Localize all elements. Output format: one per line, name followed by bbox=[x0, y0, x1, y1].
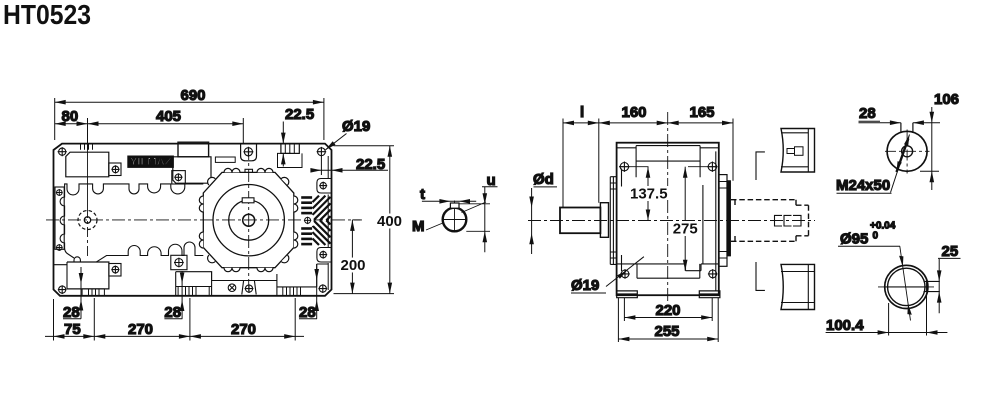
u extension lines bbox=[459, 202, 490, 231]
arrows l bbox=[563, 121, 574, 126]
leader M bbox=[426, 223, 444, 231]
arrows 690 bbox=[55, 100, 66, 105]
svg-text:160: 160 bbox=[622, 104, 647, 121]
arrows 22.5 right bbox=[310, 168, 321, 173]
svg-text:0: 0 bbox=[873, 231, 879, 242]
arrows 75/270/270 bbox=[54, 334, 65, 339]
inner cavity bottom scalloped line bbox=[96, 242, 203, 262]
arrows 200 bbox=[350, 220, 355, 231]
dimension 28 (slot) bbox=[859, 121, 941, 123]
top-left corner bolt bbox=[58, 147, 67, 156]
output hub octagon boss bbox=[203, 172, 293, 267]
svg-text:137.5: 137.5 bbox=[630, 186, 668, 203]
hub vertical centerline bbox=[248, 147, 250, 291]
svg-text:270: 270 bbox=[128, 321, 153, 338]
Ø95 circle inner bbox=[888, 268, 925, 305]
top-right recess box bbox=[278, 153, 303, 167]
fins center bolt bbox=[303, 215, 314, 225]
svg-text:100.4: 100.4 bbox=[826, 317, 864, 334]
front left flange bbox=[610, 177, 616, 265]
inner cavity left scallops bbox=[60, 186, 74, 258]
dimension 25 bbox=[938, 258, 961, 313]
dimension 22.5 top vertical bbox=[277, 122, 291, 167]
extension lines right bbox=[334, 146, 395, 294]
input shaft vertical centerline bbox=[87, 144, 89, 208]
svg-text:u: u bbox=[487, 172, 496, 189]
arrows Ø95 tilted bbox=[899, 256, 903, 267]
svg-text:80: 80 bbox=[62, 108, 79, 125]
svg-text:M24x50: M24x50 bbox=[836, 177, 890, 194]
hub circles bbox=[213, 185, 284, 256]
svg-text:22.5: 22.5 bbox=[356, 156, 385, 173]
arrows 160 bbox=[599, 121, 610, 126]
svg-text:HT0523: HT0523 bbox=[3, 0, 91, 30]
bottom middle recess bbox=[212, 280, 277, 282]
right edge inner wall lines bbox=[327, 156, 329, 290]
dimension 75 270 270 bbox=[45, 298, 304, 341]
dimension l 160 165 line bbox=[563, 119, 733, 208]
svg-text:28: 28 bbox=[164, 304, 181, 321]
bottom middle lug bbox=[242, 281, 256, 295]
dimension u line bbox=[482, 187, 498, 252]
right lug B bbox=[317, 248, 332, 263]
leader Ø19 top bbox=[326, 134, 347, 150]
arrows 255 bbox=[618, 337, 629, 342]
hub keyway bbox=[242, 198, 254, 203]
svg-text:l: l bbox=[580, 104, 584, 121]
Ø95 horizontal chord bbox=[885, 286, 928, 288]
key detail key slot bbox=[450, 203, 459, 208]
corner bolt (Ø19) bbox=[317, 147, 327, 157]
Ø95 label underline bbox=[838, 245, 900, 247]
Ø95 keyway slot bbox=[924, 281, 940, 291]
top-center block lower bbox=[173, 157, 211, 183]
detail block bottom bbox=[781, 264, 815, 309]
input shaft collar bbox=[600, 203, 608, 238]
front top bolts bbox=[619, 162, 717, 172]
small plate bbox=[215, 157, 235, 162]
arrows 220 bbox=[624, 315, 635, 320]
input shaft circle bbox=[78, 211, 97, 230]
leader Ø19 front bbox=[571, 257, 644, 293]
svg-text:25: 25 bbox=[942, 243, 959, 260]
svg-text:405: 405 bbox=[156, 108, 181, 125]
dimension 106 bbox=[920, 107, 939, 190]
YILMAZ logo plate bbox=[128, 156, 174, 167]
top-right bolt lug bbox=[241, 144, 257, 161]
arrows 100.4 bbox=[878, 330, 889, 335]
dimension 100.4 bbox=[826, 295, 948, 336]
dimension 220 bbox=[624, 298, 712, 321]
dimension 200 bbox=[351, 220, 353, 294]
boss top tab bbox=[245, 169, 253, 172]
front body outline bbox=[617, 143, 719, 296]
front foot pads bbox=[617, 291, 638, 298]
foot 2 bolt square bbox=[171, 255, 187, 269]
arrows 25 bbox=[937, 270, 942, 281]
leader M24x50 bbox=[837, 135, 910, 194]
svg-text:220: 220 bbox=[656, 302, 681, 319]
svg-text:75: 75 bbox=[64, 321, 81, 338]
right lug A bbox=[317, 179, 332, 194]
top edge ticks bbox=[81, 144, 93, 150]
bracket bottom bbox=[756, 262, 765, 290]
main horizontal centerline bbox=[46, 219, 362, 221]
arrows 80/405 bbox=[55, 121, 66, 126]
front vertical centerline bbox=[667, 112, 669, 302]
svg-text:275: 275 bbox=[673, 221, 698, 238]
foot 1 block bbox=[67, 262, 109, 289]
arrows 400 bbox=[388, 146, 393, 157]
svg-text:t: t bbox=[420, 186, 425, 203]
detail block top bbox=[781, 129, 815, 173]
right hub ring bbox=[727, 181, 730, 256]
bore center detail bbox=[775, 215, 802, 226]
arrows 165 bbox=[668, 121, 679, 126]
dimension 275 bbox=[684, 167, 686, 271]
arrows 275 bbox=[683, 167, 688, 178]
arrows t bbox=[439, 199, 450, 204]
key detail shaft circle bbox=[443, 208, 467, 232]
dimension 22.5 right bbox=[311, 155, 388, 175]
bracket top bbox=[756, 152, 765, 180]
detail block top screw bbox=[787, 149, 795, 154]
input shaft bbox=[560, 208, 600, 234]
bolt square 1 bbox=[109, 163, 121, 176]
svg-text:28: 28 bbox=[859, 105, 876, 122]
svg-text:28: 28 bbox=[63, 304, 80, 321]
foot 2 block bbox=[176, 272, 212, 281]
dimension 80 and 405 bbox=[55, 118, 244, 150]
front inner panel lines bbox=[622, 169, 703, 272]
input block top-left bbox=[66, 152, 109, 177]
dimension 690 bbox=[55, 98, 324, 140]
arrow Ø19 leader bbox=[326, 141, 336, 150]
svg-text:M: M bbox=[412, 218, 425, 235]
svg-text:Ø19: Ø19 bbox=[571, 277, 599, 294]
fins bars bbox=[301, 196, 312, 245]
dimension 255 bbox=[618, 298, 718, 342]
arrows Ød bbox=[529, 197, 534, 208]
svg-text:YILMAZ: YILMAZ bbox=[130, 156, 172, 168]
right body inner wall bbox=[715, 151, 717, 290]
M24 circle centerlines bbox=[885, 130, 930, 174]
dimension 28 verticals bbox=[63, 264, 317, 319]
svg-text:270: 270 bbox=[231, 321, 256, 338]
fins chevron stripes bbox=[313, 196, 331, 245]
dimension t bbox=[422, 200, 476, 202]
top-right hub stripe box bbox=[281, 144, 299, 154]
inner cavity top scalloped line bbox=[65, 184, 204, 195]
housing outline bbox=[54, 144, 332, 296]
Ø95 circle outer bbox=[885, 265, 928, 308]
top-center block upper bbox=[178, 142, 209, 157]
dimension Ød bbox=[532, 187, 557, 254]
front horizontal centerline bbox=[528, 220, 815, 222]
svg-text:28: 28 bbox=[299, 304, 316, 321]
front flange bolt line bbox=[619, 166, 717, 168]
bore stub hidden lines bbox=[796, 205, 809, 236]
svg-text:690: 690 bbox=[181, 87, 206, 104]
shaft end circle M24 bbox=[887, 131, 927, 171]
Ø95 tilted diameter line bbox=[900, 246, 911, 320]
svg-text:200: 200 bbox=[341, 257, 366, 274]
key detail crosshair bbox=[443, 201, 466, 233]
svg-text:Ø95: Ø95 bbox=[840, 231, 868, 248]
front foot lines bbox=[617, 264, 719, 271]
bottom X bolt bbox=[228, 284, 236, 292]
svg-text:22.5: 22.5 bbox=[285, 106, 314, 123]
foot 1 lug bbox=[54, 262, 68, 289]
arrows 22.5 top bbox=[281, 133, 286, 144]
bolt square 2 bbox=[172, 171, 186, 184]
svg-text:255: 255 bbox=[655, 323, 680, 340]
arrow M24 leader bbox=[904, 135, 910, 146]
arrows 106 bbox=[930, 112, 935, 123]
svg-text:Ød: Ød bbox=[533, 171, 554, 188]
arrows 137.5 bbox=[646, 167, 651, 178]
arrows u bbox=[483, 193, 488, 204]
svg-text:165: 165 bbox=[690, 104, 715, 121]
front top recess bbox=[617, 146, 719, 178]
svg-text:400: 400 bbox=[377, 213, 402, 230]
boss scallop bumps bbox=[199, 168, 297, 271]
dimension 400 bbox=[389, 146, 391, 294]
front bottom bolts bbox=[620, 269, 717, 279]
right flange ring bbox=[719, 175, 727, 267]
arrows 28 slot bbox=[890, 120, 901, 125]
arrows 28 bbox=[79, 273, 84, 284]
foot 3 block bbox=[277, 264, 328, 296]
dimension 137.5 bbox=[647, 167, 649, 221]
svg-text:Ø19: Ø19 bbox=[342, 118, 370, 135]
bolt square 1b bbox=[109, 264, 121, 277]
svg-text:106: 106 bbox=[934, 91, 959, 108]
hollow output shaft hidden lines bbox=[731, 200, 796, 242]
left clamp plate bbox=[55, 187, 64, 249]
M24 keyway slot bbox=[901, 123, 913, 133]
arrow Ø19 front leader bbox=[617, 270, 627, 279]
